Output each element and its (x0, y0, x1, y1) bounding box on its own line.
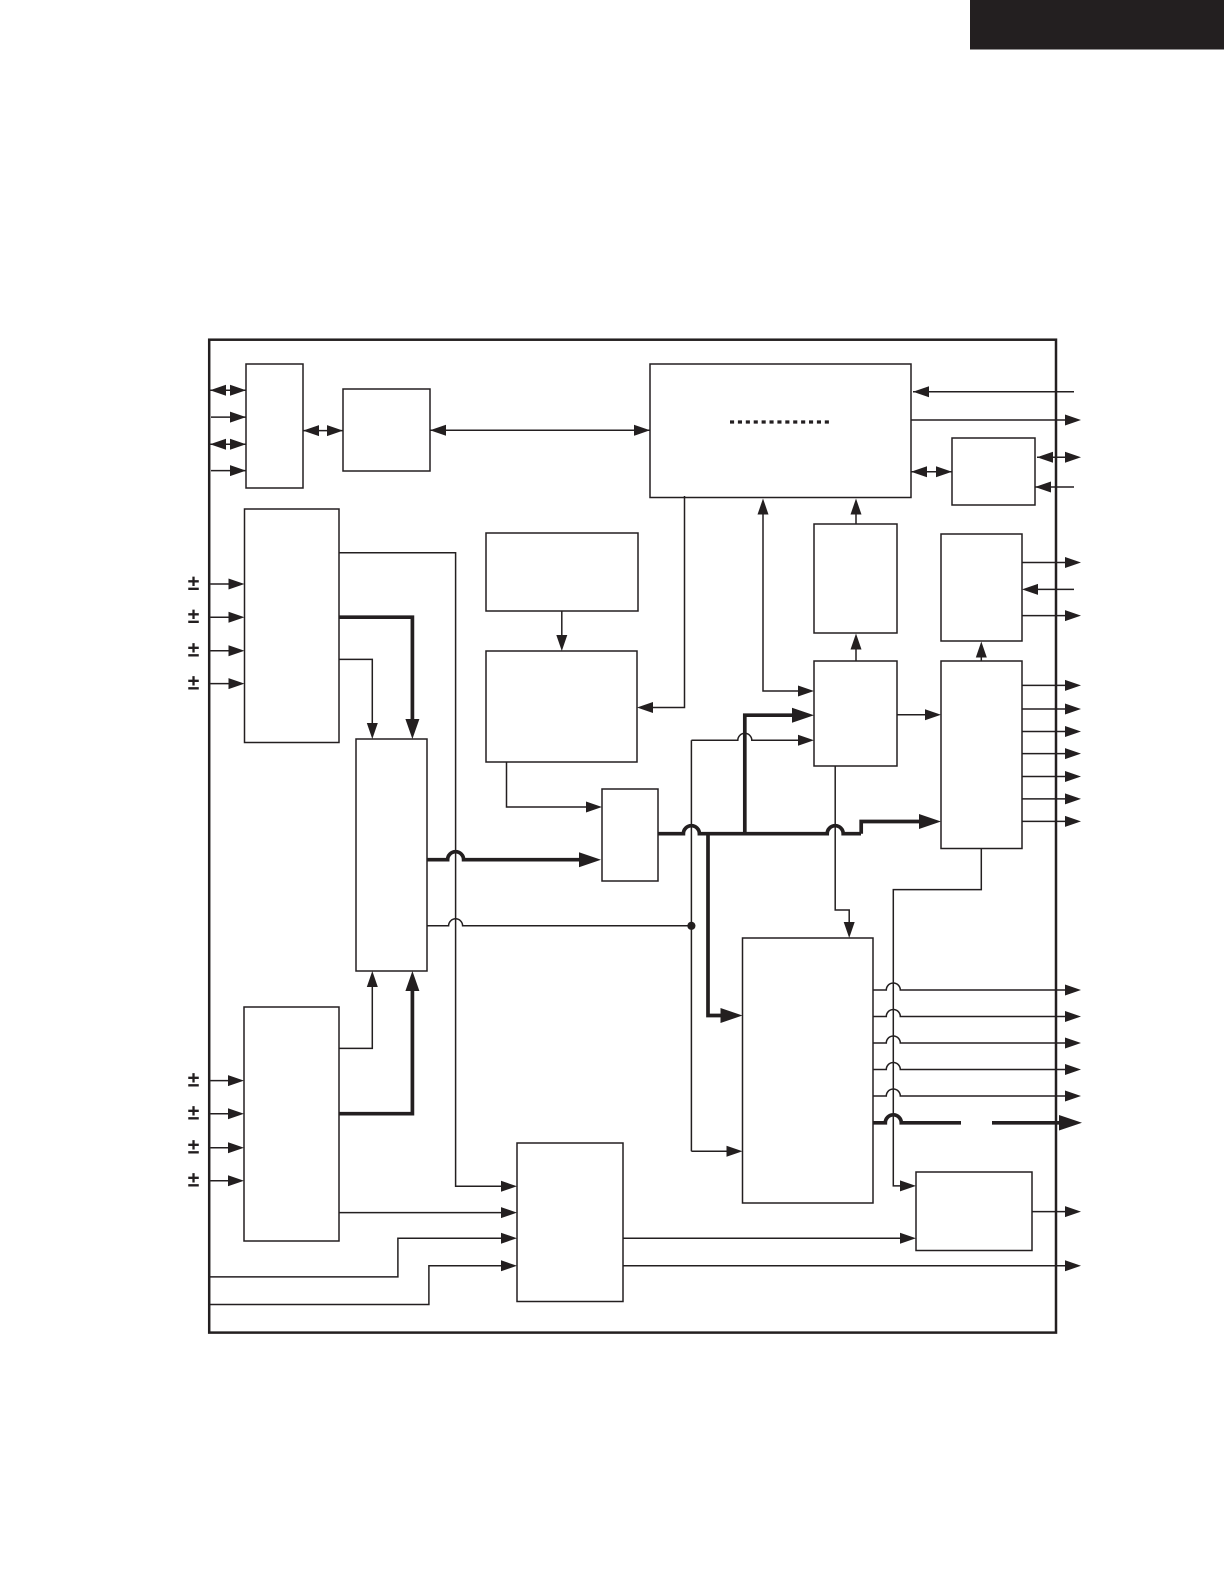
block B3 (system control MCU, top-center) (650, 364, 911, 498)
wire B11 output 7 to edge (1022, 816, 1081, 827)
block B7 (video input 2) (486, 651, 637, 762)
plus-minus label 8 (188, 1169, 200, 1192)
wire B5 to B16 long vertical (339, 553, 517, 1192)
block B16 (rec out selector) (517, 1143, 623, 1302)
wire B9 to B11 (897, 709, 941, 720)
wire B10 output 2 to edge (1022, 610, 1081, 621)
plus-minus label 2 (188, 605, 200, 628)
wire B14 output 3 to edge (873, 1036, 1081, 1049)
block B17 (headphone amp) (916, 1172, 1032, 1251)
wire audio input 6 to B15 (211, 1108, 245, 1119)
dashed label line inside B3 (730, 420, 829, 423)
wire B15 to B16 (339, 1207, 517, 1218)
wire antenna in 2 to B1 (211, 412, 246, 423)
black header band (970, 0, 1224, 50)
wire B9 up to B8 (851, 634, 862, 662)
plus-minus label 5 (188, 1069, 200, 1092)
wire B14 output 2 to edge (873, 1010, 1081, 1022)
svg-text:±: ± (188, 1069, 200, 1092)
wire B12 thin to junction node (427, 919, 691, 926)
wire antenna in/out 1 to B1 (210, 385, 246, 396)
plus-minus label 1 (188, 572, 200, 595)
wire B17 output to edge (1032, 1206, 1081, 1217)
wire B9 down to B14 (835, 766, 855, 938)
block B6 (video input 1) (486, 533, 638, 611)
wire B14 thick dashed output to edge (873, 1115, 1082, 1131)
wire B14 output 5 to edge (873, 1089, 1081, 1101)
wire antenna in/out 3 to B1 (210, 439, 246, 450)
svg-text:±: ± (188, 1102, 200, 1125)
wire audio input 2 to B5 (211, 612, 245, 623)
wire audio input 4 to B5 (211, 678, 245, 689)
wire B16 long output to edge (623, 1260, 1081, 1271)
wire B1 to B2 bidirectional (303, 425, 343, 436)
wire B11 up to B10 (976, 642, 987, 662)
wire B14 output 1 to edge (873, 983, 1081, 996)
block B10 (sync gen) (941, 534, 1022, 641)
wire B4 data bidirectional to edge (1037, 452, 1081, 463)
svg-text:±: ± (188, 572, 200, 595)
plus-minus label 4 (188, 672, 200, 695)
wire B11 output 1 to edge (1022, 680, 1081, 691)
wire B8 up to B3 (851, 499, 862, 525)
wire audio input 3 to B5 (211, 645, 245, 656)
wire B6 down to B7 (556, 611, 567, 651)
outer frame of block diagram (209, 340, 1056, 1333)
wire B5 thick to B12 top (339, 617, 419, 739)
block B12 (audio DSP, center tall) (356, 739, 427, 971)
block B14 (audio output, bottom-center-right) (743, 938, 874, 1203)
wire B11 output 6 to edge (1022, 793, 1081, 804)
wire thick branch down to B14 (708, 833, 743, 1023)
wire B14 output 4 to edge (873, 1063, 1081, 1076)
wire B11 output 5 to edge (1022, 771, 1081, 782)
block B2 (IF) (343, 389, 430, 471)
plus-minus label 6 (188, 1102, 200, 1125)
wire audio input 1 to B5 (211, 579, 245, 590)
wire B2 to B3 bidirectional bus (430, 425, 650, 436)
plus-minus label 3 (188, 639, 200, 662)
block B5 (audio input selector, left) (245, 509, 340, 743)
block B4 (EEPROM, top-right) (952, 438, 1035, 505)
wire B11 down around to B17 (893, 849, 981, 1192)
wire B7 bottom to B13 (507, 762, 603, 813)
wire audio input 5 to B15 (211, 1075, 245, 1086)
svg-text:±: ± (188, 605, 200, 628)
wire B13 thick output trunk (658, 814, 941, 834)
wire thick branch up to B9 (745, 708, 814, 835)
wire input into B4 (1035, 482, 1074, 493)
wire B11 output 3 to edge (1022, 726, 1081, 737)
wire antenna in 4 to B1 (211, 465, 246, 476)
wire input into B3 right (913, 386, 1074, 397)
svg-text:±: ± (188, 1169, 200, 1192)
block B8 (OSD) (814, 524, 897, 633)
wire B3/B9 control elbow (758, 499, 815, 697)
block B1 (tuner, top-left) (246, 364, 303, 488)
svg-text:±: ± (188, 672, 200, 695)
block B11 (video output amp) (941, 661, 1022, 849)
wire B16 to B17 (623, 1233, 916, 1244)
wire B5 thin to B12 top (339, 659, 378, 739)
junction node dot (687, 922, 695, 930)
wire B15 thin up to B12 (339, 971, 378, 1048)
wire audio input 8 to B15 (211, 1175, 245, 1186)
wire junction vertical with branches to B9 and B14 (691, 733, 814, 1156)
wire B10 output 1 to edge (1022, 557, 1081, 568)
wire audio input 7 to B15 (211, 1142, 245, 1153)
wire B3 to B4 bidirectional (911, 466, 952, 477)
wire B15 thick up to B12 (339, 971, 419, 1114)
wire B12 thick to B13 (427, 852, 601, 868)
block B9 (video encoder) (814, 661, 897, 766)
block B15 (audio input selector 2, bottom-left) (244, 1007, 339, 1241)
wire B11 output 4 to edge (1022, 748, 1081, 759)
svg-text:±: ± (188, 639, 200, 662)
wire frame-left elbow 1 to B16 (210, 1233, 517, 1277)
wire B3 down to B7 right (637, 496, 685, 713)
block B13 (switch, small center) (602, 789, 658, 881)
wire frame-left elbow 2 to B16 (210, 1260, 517, 1304)
wire output from B3 right (911, 415, 1081, 426)
wire input into B10 (1022, 584, 1074, 595)
plus-minus label 7 (188, 1136, 200, 1159)
svg-text:±: ± (188, 1136, 200, 1159)
wire B11 output 2 to edge (1022, 704, 1081, 715)
